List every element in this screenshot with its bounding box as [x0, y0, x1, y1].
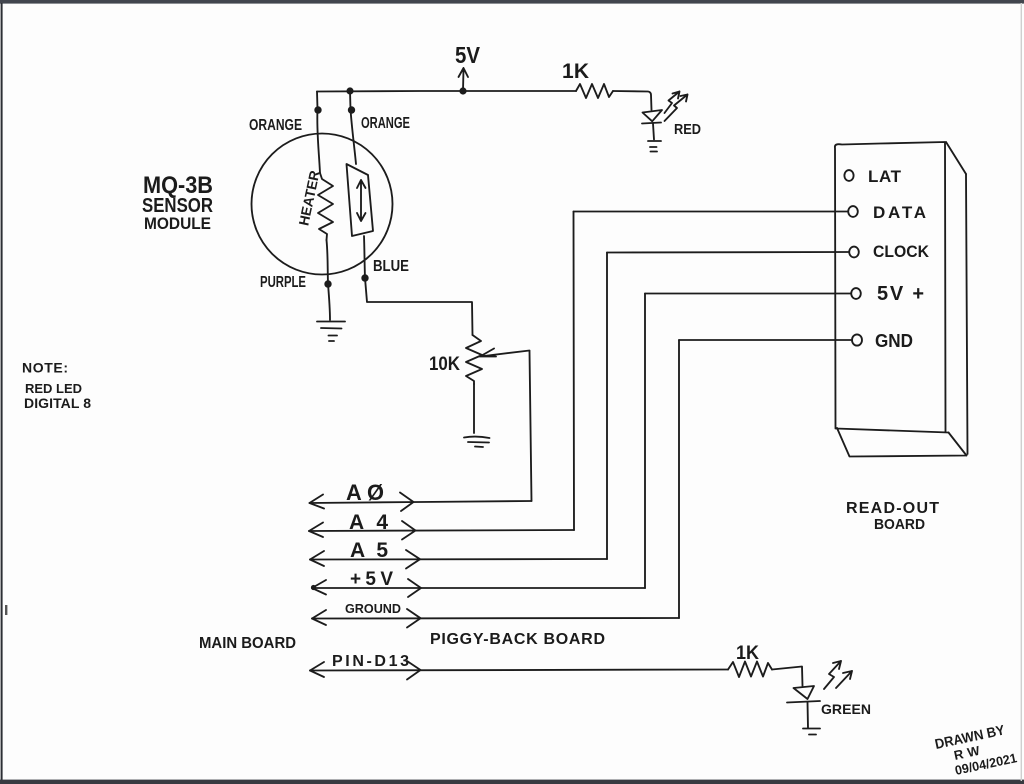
LED D1 red triangle — [643, 110, 663, 121]
svg-text:PIGGY-BACK BOARD: PIGGY-BACK BOARD — [430, 631, 605, 648]
potentiometer RV1 zigzag — [466, 335, 482, 384]
wire main 5V rail — [317, 90, 576, 93]
arrowhead left A0 — [310, 495, 325, 509]
arrowhead left +5V — [312, 580, 326, 595]
ground for green LED — [803, 729, 820, 735]
LED D2 green triangle — [794, 686, 815, 699]
arrowhead left PIN-D13 — [310, 662, 324, 677]
arrowhead right +5V — [408, 579, 421, 597]
wire heater to purple node — [327, 240, 329, 284]
wire 5V+ net horizontal — [645, 293, 851, 295]
svg-text:1K: 1K — [562, 60, 589, 83]
readout board front face — [835, 142, 949, 433]
junction dot orange-2 connector — [348, 106, 355, 113]
ground for RV1 — [464, 437, 490, 447]
resistor R2 1K zigzag — [728, 662, 772, 678]
svg-text:ORANGE: ORANGE — [361, 115, 410, 132]
wire CLOCK net horizontal — [607, 251, 849, 254]
light arrows green LED — [824, 661, 841, 689]
stray mark left margin — [5, 605, 7, 615]
svg-text:LAT: LAT — [868, 167, 902, 186]
LED D2 green cathode bar — [787, 701, 820, 703]
svg-text:PURPLE: PURPLE — [260, 274, 306, 291]
arrowhead left A4 — [309, 523, 323, 538]
bus line +5V — [312, 587, 645, 589]
junction dot 5V arrow tap — [459, 87, 466, 94]
junction dot blue connector — [361, 274, 368, 281]
wire RV1 bottom lead — [473, 384, 475, 433]
wire blue node to potentiometer top — [365, 278, 473, 335]
pin LAT circle — [844, 170, 853, 181]
readout board top right 3d edge — [946, 142, 966, 174]
wire GND net horizontal — [679, 339, 851, 341]
wire CLOCK net vertical — [606, 253, 608, 560]
arrowhead right GROUND — [407, 609, 421, 628]
arrowhead right A5 — [406, 550, 420, 569]
border frame top bar — [0, 0, 1024, 4]
svg-text:READ-OUT: READ-OUT — [846, 500, 939, 517]
readout board right back edge — [966, 174, 968, 454]
svg-text:GREEN: GREEN — [821, 701, 871, 717]
heater resistor zigzag — [318, 173, 333, 240]
wire 5V+ net vertical — [644, 294, 646, 589]
sensor element double arrow — [357, 180, 366, 221]
svg-text:10K: 10K — [429, 354, 460, 375]
arrowhead right A4 — [402, 521, 416, 540]
svg-text:MAIN BOARD: MAIN BOARD — [199, 635, 296, 652]
svg-text:RED: RED — [674, 121, 701, 138]
readout board bottom flap — [837, 428, 967, 457]
bus line PIN-D13 — [310, 670, 728, 671]
wire sensor element to blue node — [364, 236, 365, 278]
arrowhead left GROUND — [312, 610, 326, 625]
border frame left line — [1, 3, 3, 781]
light arrows red LED — [665, 92, 680, 114]
ground main module — [317, 322, 345, 342]
pin 5V+ circle — [851, 288, 861, 299]
svg-text:BOARD: BOARD — [874, 516, 925, 533]
bus line GROUND — [312, 617, 679, 620]
svg-text:1K: 1K — [736, 643, 759, 664]
wire purple node to ground — [328, 284, 330, 320]
sensor module circle U1 — [252, 134, 393, 275]
pin DATA circle — [848, 206, 858, 217]
junction dot purple connector — [324, 280, 331, 287]
arrowhead right A0 — [400, 493, 414, 512]
border frame bottom bar — [0, 780, 1024, 784]
wire orange-1 to heater — [317, 110, 320, 174]
pin GND circle — [852, 334, 862, 345]
wire orange-2 drop into module — [349, 91, 352, 110]
arrowhead left A5 — [310, 551, 324, 566]
border frame faint right edge — [1021, 3, 1022, 781]
svg-text:BLUE: BLUE — [373, 258, 409, 275]
wire DATA net vertical — [573, 212, 576, 531]
junction blob +5V left — [311, 585, 316, 590]
wire D1 cathode to ground — [653, 124, 654, 140]
svg-text:5V: 5V — [455, 42, 481, 68]
svg-text:NOTE:: NOTE: — [22, 360, 68, 376]
svg-text:5V +: 5V + — [877, 283, 924, 305]
bus line A4 — [309, 530, 574, 531]
LED D1 red cathode bar — [642, 123, 661, 124]
junction dot orange-2 tap — [346, 87, 353, 94]
svg-text:RED LED: RED LED — [25, 381, 82, 396]
potentiometer RV1 wiper arrow — [480, 349, 530, 357]
bus line A5 — [310, 558, 607, 561]
wire GND net vertical — [678, 340, 680, 618]
svg-text:A 4: A 4 — [349, 511, 388, 534]
wire wiper to A0 bus — [530, 351, 532, 501]
arrowhead right PIN-D13 — [407, 661, 421, 680]
sensor element parallelogram — [347, 164, 374, 236]
resistor R1 1K zigzag — [576, 84, 613, 98]
svg-text:GND: GND — [875, 331, 913, 351]
wire orange-1 drop into module — [316, 92, 319, 110]
svg-text:+5V: +5V — [350, 569, 393, 590]
wire D2 cathode to ground — [807, 702, 810, 728]
svg-text:A 5: A 5 — [350, 539, 388, 562]
wire R2 to green LED — [772, 667, 803, 687]
ground for red LED — [648, 141, 661, 152]
bus line A0 — [310, 501, 532, 503]
pin CLOCK circle — [849, 247, 859, 258]
svg-text:MODULE: MODULE — [144, 214, 211, 233]
5V supply arrow — [459, 68, 469, 91]
svg-text:GROUND: GROUND — [345, 601, 401, 616]
svg-text:DIGITAL 8: DIGITAL 8 — [24, 395, 91, 411]
svg-text:CLOCK: CLOCK — [873, 242, 930, 261]
wire R1 to red LED — [613, 91, 652, 110]
wire DATA net horizontal — [574, 211, 849, 213]
junction dot orange-1 connector — [314, 106, 321, 113]
wire orange-2 to sensor element — [351, 110, 357, 165]
svg-text:A Ø: A Ø — [346, 480, 384, 505]
svg-text:ORANGE: ORANGE — [249, 117, 302, 134]
